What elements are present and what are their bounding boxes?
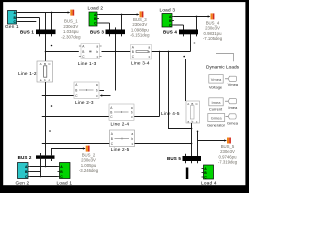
from tag Vmea <box>225 76 237 81</box>
svg-text:B: B <box>191 102 193 106</box>
junction dot Load3 A <box>196 16 198 18</box>
svg-text:-2.307deg: -2.307deg <box>61 34 81 39</box>
svg-text:b: b <box>131 137 133 141</box>
svg-text:Line 3-4: Line 3-4 <box>131 61 150 66</box>
svg-text:Load 1: Load 1 <box>57 181 73 186</box>
wire Line2-4 b to riser <box>134 116 160 118</box>
junction dot Gen2 phase A <box>45 166 47 168</box>
svg-text:B: B <box>111 137 113 141</box>
bus bar BUS 4 <box>179 30 198 35</box>
wire Load3 phase A to tag BUS_4 <box>174 16 210 18</box>
wire Gen2 phase B <box>30 171 41 173</box>
bus bar BUS 2 <box>36 155 55 158</box>
from tag Imea <box>225 99 237 104</box>
junction dot Line 1-3 branch <box>45 51 47 53</box>
arrowhead to tag BUS_3 <box>137 13 140 15</box>
wire Line1-3 b to BUS4 riser <box>102 51 191 53</box>
load Load 2 <box>89 12 99 26</box>
wire drop to Line 4-5 top <box>185 59 187 101</box>
svg-text:Line 2-3: Line 2-3 <box>75 100 94 105</box>
generator Gen 2 <box>18 163 31 180</box>
wire Gen2-Load1 phase A <box>30 166 58 168</box>
tick below BUS5 mid <box>191 161 193 163</box>
svg-text:-3.246deg: -3.246deg <box>79 168 99 173</box>
transmission line block Line 1-3 <box>81 44 100 59</box>
wire tick BUS1 left <box>39 18 41 37</box>
transmission line block Line 2-4 <box>109 104 134 120</box>
wire Gen1 phase A to tag BUS_1 <box>18 12 70 14</box>
border frame <box>0 0 3 193</box>
measurement text BUS_2 <box>79 152 99 173</box>
wire into Line2-3 c <box>101 95 111 97</box>
svg-text:-7.105deg: -7.105deg <box>203 36 223 41</box>
svg-text:b: b <box>96 50 98 54</box>
junction dot Load2 A <box>121 14 123 16</box>
wire tick BUS1 right <box>51 13 53 37</box>
svg-text:a: a <box>148 45 150 49</box>
svg-text:Gen 1: Gen 1 <box>5 24 19 29</box>
svg-text:B: B <box>82 50 84 54</box>
svg-text:A: A <box>187 102 189 106</box>
load Load 4 <box>202 165 214 180</box>
tick below BUS2 <box>51 159 53 161</box>
scope block Voltage <box>209 75 223 84</box>
annotation dot <box>49 130 51 132</box>
wire branch to Line 2-4 <box>42 116 109 118</box>
junction dot riser BUS3 crossing <box>115 51 116 52</box>
svg-text:a: a <box>96 44 98 48</box>
svg-text:a: a <box>96 83 98 87</box>
dot at top of drop <box>183 56 185 58</box>
measurement text BUS_4 <box>203 20 223 41</box>
stub riser to Line2-3 b <box>100 90 105 92</box>
svg-text:b: b <box>131 110 133 114</box>
arrowhead to tag BUS_1 <box>68 11 71 13</box>
svg-text:Line 2-4: Line 2-4 <box>111 122 130 127</box>
wire tick BUS3 left <box>109 23 111 36</box>
svg-text:Gmea: Gmea <box>227 121 239 126</box>
svg-text:Dynamic Loads: Dynamic Loads <box>206 64 240 70</box>
wire riser BUS4 down <box>190 34 192 52</box>
svg-text:A: A <box>40 62 42 66</box>
svg-text:Line 1-2: Line 1-2 <box>18 71 37 76</box>
svg-text:-7.319deg: -7.319deg <box>218 160 238 165</box>
svg-text:B: B <box>110 110 112 114</box>
svg-text:BUS 5: BUS 5 <box>167 156 181 161</box>
generator Gen 1 <box>8 11 19 25</box>
annotation dot <box>51 105 53 107</box>
goto tag BUS_2 <box>86 146 90 152</box>
wire Gen1 phase B <box>18 17 40 19</box>
goto tag BUS_3 <box>140 11 144 17</box>
goto tag BUS_1 <box>70 10 74 16</box>
svg-text:Generator: Generator <box>207 122 226 127</box>
goto tag BUS_5 <box>227 138 231 144</box>
goto tag BUS_4 <box>211 13 215 19</box>
wire riser BUS1 phase A down to Line 1-2 <box>45 13 47 62</box>
svg-text:Load 2: Load 2 <box>88 6 104 11</box>
load Load 1 <box>58 163 71 180</box>
wire branch to Line 2-5 <box>42 143 110 145</box>
svg-text:BUS 1: BUS 1 <box>20 29 34 34</box>
svg-text:Imea: Imea <box>228 105 238 110</box>
load Load 3 <box>162 14 174 28</box>
from tag Gmea <box>226 114 237 119</box>
junction dot branch to Line 2-4 <box>159 51 160 52</box>
svg-text:-6.151deg: -6.151deg <box>130 33 150 38</box>
bus bar BUS 5 <box>183 156 202 161</box>
svg-text:BUS 2: BUS 2 <box>18 155 32 160</box>
wire stub BUS2 to tag <box>52 149 85 156</box>
svg-text:Load 3: Load 3 <box>160 7 176 12</box>
svg-text:Current: Current <box>209 106 223 111</box>
svg-text:Vmea: Vmea <box>211 77 222 82</box>
tick below BUS5 left <box>185 161 187 163</box>
tick above BUS5 left <box>185 154 187 156</box>
svg-text:Line 2-5: Line 2-5 <box>111 147 130 152</box>
tick below BUS5 right <box>197 161 199 163</box>
transmission line block Line 2-5 <box>110 130 135 147</box>
measurement text BUS_3 <box>130 17 150 38</box>
arrowhead to tag BUS_4 <box>208 15 211 17</box>
svg-text:Imea: Imea <box>212 100 222 105</box>
wire riser BUS3 down <box>115 27 117 90</box>
wire branch to Line 2-3 <box>42 95 74 97</box>
wire BUS5 to tag <box>198 140 227 142</box>
wire tick BUS2 to phase C row <box>40 153 42 177</box>
svg-text:Line 4-5: Line 4-5 <box>161 111 180 116</box>
wire Load2 phase C <box>99 22 110 24</box>
wire Load2 phase A to tag BUS_3 <box>99 14 139 16</box>
junction dot branch to Line 4-5 <box>168 51 170 53</box>
wire tick BUS3 right <box>121 15 123 37</box>
svg-text:BUS 4: BUS 4 <box>163 29 177 34</box>
wire riser Line1-2 to BUS2 <box>45 82 47 155</box>
wire Line2-5 c to BUS5 riser <box>135 143 192 145</box>
arrowhead to tag BUS_2 <box>83 147 86 149</box>
wire tick BUS4 left <box>183 25 185 36</box>
measurement text BUS_1 <box>61 19 81 40</box>
bus bar BUS 3 <box>106 30 126 35</box>
svg-text:a: a <box>131 132 133 136</box>
svg-text:BUS 3: BUS 3 <box>90 29 104 34</box>
svg-text:Gmea: Gmea <box>211 116 223 121</box>
svg-text:b: b <box>96 88 98 92</box>
wire tick BUS4 right <box>196 17 198 37</box>
svg-text:a: a <box>131 106 133 110</box>
wire stub BUS5 up <box>197 132 199 157</box>
arrowhead to tag BUS_5 <box>224 139 227 141</box>
scope block Current <box>209 98 223 106</box>
wire riser Line4-5 to BUS5 <box>191 123 193 156</box>
bus bar BUS 1 <box>36 30 56 35</box>
scope block Generator <box>208 114 225 122</box>
wire riser BUS2 to phase A row <box>45 159 47 167</box>
wire Gen2-Load1 phase C <box>30 176 58 178</box>
junction dot <box>51 12 53 14</box>
wire Load3 phase C <box>174 24 184 26</box>
arrowhead into Line2-3 c <box>100 94 103 96</box>
svg-text:Line 1-3: Line 1-3 <box>78 61 97 66</box>
wire drop to Line 2-4 return <box>159 52 161 117</box>
svg-text:Vmea: Vmea <box>228 82 239 87</box>
junction dot Gen2 phase C <box>40 176 42 178</box>
wire Gen1 phase C <box>18 21 36 23</box>
wire drop to Line 4-5 bottom node <box>169 52 192 129</box>
svg-text:B: B <box>75 88 77 92</box>
transmission line block Line 3-4 <box>131 45 152 60</box>
measurement text BUS_5 <box>218 144 238 165</box>
annotation wire to Dynamic Loads <box>216 54 234 62</box>
annotation dash <box>194 42 196 45</box>
junction dot at BUS5 riser <box>191 143 193 145</box>
svg-text:Load 4: Load 4 <box>201 181 217 186</box>
svg-text:B: B <box>132 50 134 54</box>
svg-text:B: B <box>44 62 46 66</box>
junction dot stub top <box>197 131 199 133</box>
junction dot at Line4-5 bottom <box>191 128 193 130</box>
transmission line block Line 4-5 <box>186 101 200 123</box>
wire branch to Line 1-3 <box>46 51 79 53</box>
black stub below BUS5 <box>186 168 189 180</box>
transmission line block Line 1-2 <box>37 61 53 82</box>
svg-text:Gen 2: Gen 2 <box>16 181 30 186</box>
transmission line block Line 2-3 <box>74 82 99 99</box>
svg-text:Voltage: Voltage <box>209 84 223 89</box>
svg-text:b: b <box>148 50 150 54</box>
annotation dot <box>51 45 53 47</box>
